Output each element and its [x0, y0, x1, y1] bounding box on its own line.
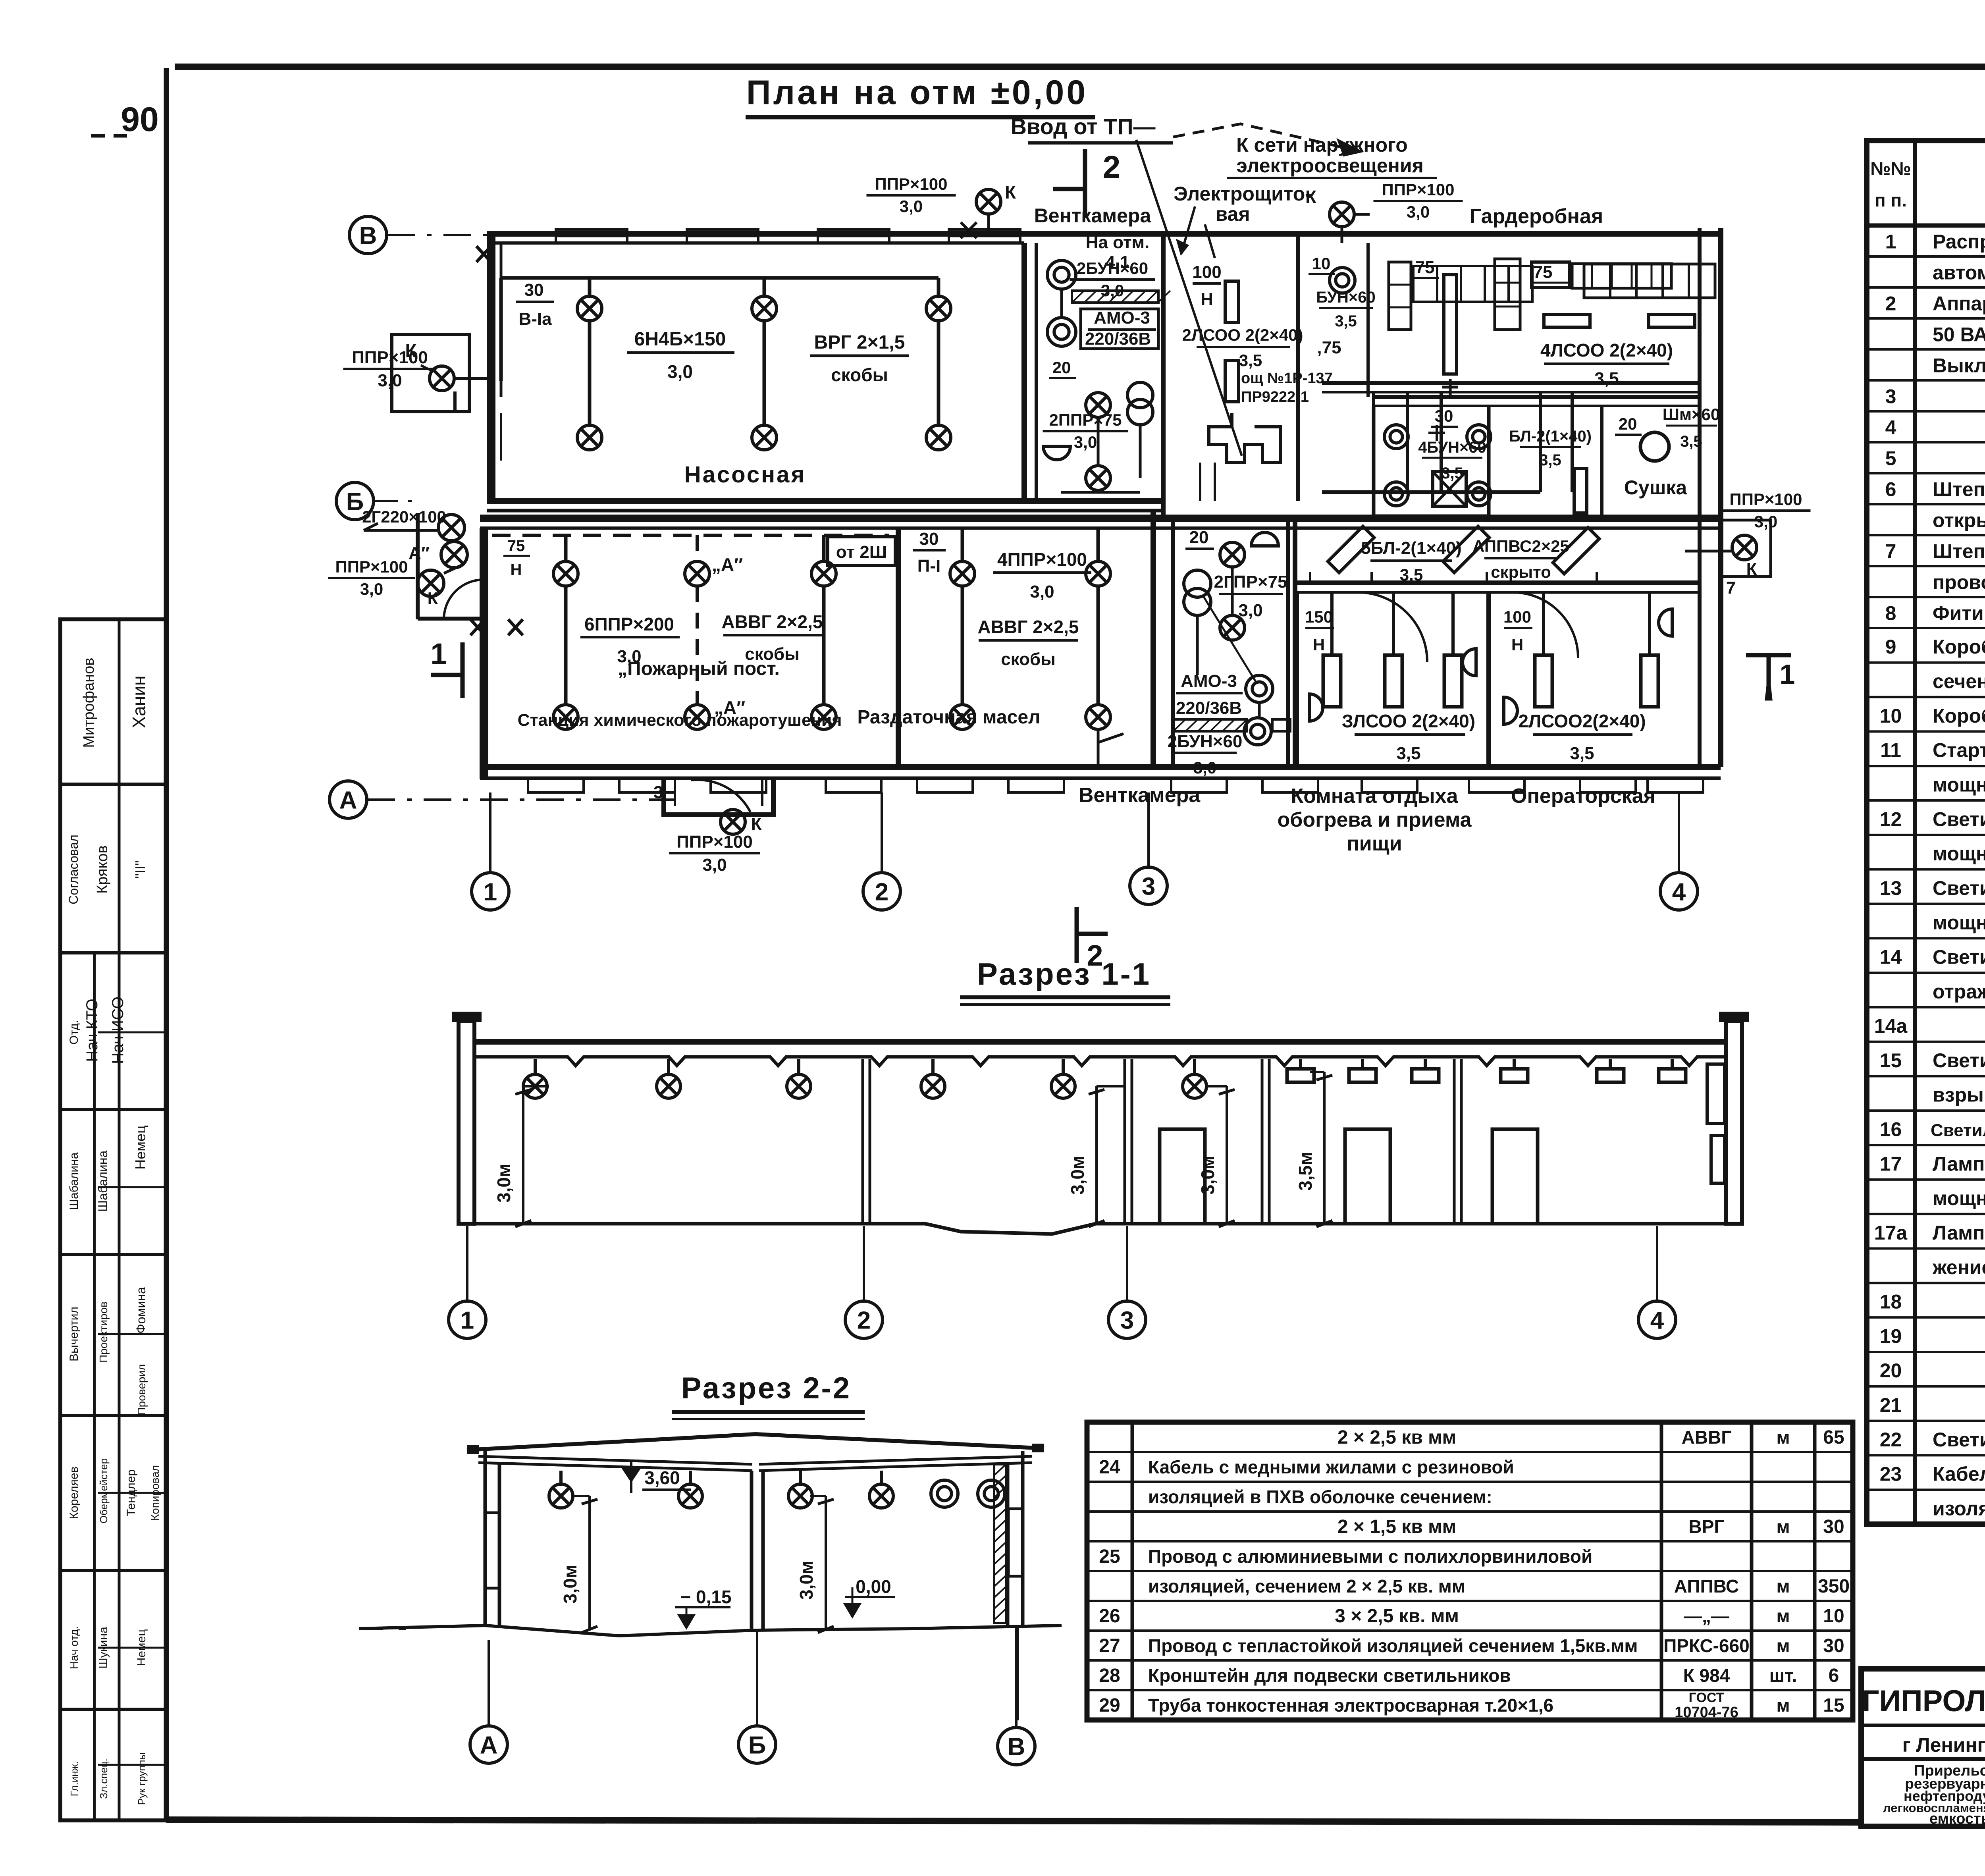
section2 ceiling slabs	[478, 1456, 1032, 1471]
dashed circuit line in stanciya	[492, 534, 889, 537]
svg-text:6: 6	[1829, 1665, 1839, 1686]
upper room wiring	[1061, 289, 1140, 492]
svg-text:"II": "II"	[132, 860, 148, 879]
svg-text:19: 19	[1880, 1325, 1902, 1347]
svg-text:п п.: п п.	[1875, 190, 1907, 210]
spec table row lines	[1867, 255, 1985, 258]
svg-text:15: 15	[1823, 1695, 1844, 1716]
left K lamp box nasosnaya	[392, 334, 469, 412]
svg-text:„А″: „А″	[712, 554, 743, 575]
svg-text:4БУН×60: 4БУН×60	[1418, 439, 1486, 456]
svg-text:Труба тонкостенная электросвар: Труба тонкостенная электросварная т.20×1…	[1148, 1695, 1553, 1716]
spec table column lines	[1913, 141, 1917, 1524]
garderob corridor wall horizontal	[1374, 395, 1700, 399]
wire from K lamp to wall	[455, 378, 491, 412]
plan axis line V	[387, 234, 619, 236]
lower block top wall	[480, 515, 1721, 522]
svg-text:Н: Н	[1313, 635, 1325, 654]
svg-text:2ЛСОО2(2×40): 2ЛСОО2(2×40)	[1518, 711, 1646, 731]
axis circle 2 plan	[863, 873, 900, 910]
svg-text:− 0,15: − 0,15	[680, 1587, 731, 1607]
svg-text:Провод с алюминиевыми с полихл: Провод с алюминиевыми с полихлорвинилово…	[1148, 1546, 1592, 1567]
section1 hanging lamps	[534, 1059, 537, 1074]
svg-text:13: 13	[1880, 877, 1902, 899]
foundation blocks under bottom wall	[528, 779, 584, 792]
svg-text:ГОСТ: ГОСТ	[1689, 1690, 1725, 1705]
cable table row lines	[1087, 1451, 1853, 1453]
svg-text:0,00: 0,00	[856, 1576, 891, 1597]
stamp column horizontal dividers	[60, 783, 166, 786]
svg-text:емкостью 2000 м³: емкостью 2000 м³	[1929, 1810, 1985, 1827]
annex lamp1	[438, 515, 464, 541]
svg-text:220/36В: 220/36В	[1085, 329, 1151, 349]
section cut mark 1 left	[461, 642, 465, 698]
section1 axis leaders	[466, 1226, 468, 1301]
svg-text:Копировал: Копировал	[149, 1465, 161, 1521]
svg-text:Фомина: Фомина	[134, 1287, 148, 1334]
section1 ceiling line with drips	[473, 1057, 1726, 1066]
svg-text:Шм×60: Шм×60	[1663, 405, 1720, 424]
section2 middle wall	[750, 1471, 754, 1629]
cable table outer border	[1087, 1422, 1853, 1720]
svg-text:Кореляев: Кореляев	[67, 1467, 81, 1519]
lower block bottom wall	[480, 764, 1721, 770]
svg-text:ПР9222-1: ПР9222-1	[1241, 389, 1309, 405]
svg-text:Нач ИСО: Нач ИСО	[109, 997, 127, 1064]
corridor diagonal fixture 2	[1443, 526, 1490, 573]
svg-text:30: 30	[919, 529, 939, 549]
svg-text:Б: Б	[748, 1731, 766, 1759]
svg-text:Венткамера: Венткамера	[1034, 204, 1152, 227]
svg-text:1: 1	[1780, 659, 1795, 690]
svg-text:1: 1	[461, 1307, 474, 1334]
svg-text:3: 3	[1885, 386, 1896, 408]
svg-text:Митрофанов: Митрофанов	[81, 657, 97, 748]
partition komnata-operatorskaya	[1486, 592, 1491, 767]
hatch strips ventkamera2	[1173, 719, 1247, 731]
svg-text:29: 29	[1099, 1695, 1120, 1716]
svg-text:3: 3	[1120, 1307, 1134, 1334]
svg-text:Аппарат местного освещения мощ: Аппарат местного освещения мощностью	[1933, 293, 1985, 315]
wall lamp AMO	[1246, 675, 1273, 702]
svg-text:м: м	[1776, 1427, 1790, 1448]
svg-text:В-Iа: В-Iа	[518, 309, 552, 329]
svg-text:7: 7	[1885, 540, 1896, 563]
svg-text:20: 20	[1189, 528, 1209, 547]
svg-text:А″: А″	[409, 544, 430, 563]
section2 hatched strip	[994, 1464, 1006, 1623]
svg-text:В: В	[359, 222, 377, 249]
svg-text:Согласовал: Согласовал	[66, 835, 81, 904]
right outer wall	[1698, 228, 1702, 767]
svg-text:Гл.инж.: Гл.инж.	[68, 1761, 80, 1797]
right outside lamp K	[1732, 535, 1757, 560]
svg-text:Светильник подвесной прямого с: Светильник подвесной прямого света без	[1933, 946, 1985, 968]
svg-text:№№: №№	[1870, 158, 1911, 179]
svg-text:1: 1	[430, 637, 447, 670]
svg-text:шт.: шт.	[1769, 1665, 1797, 1686]
svg-text:3,0: 3,0	[1030, 582, 1054, 602]
shar lamp	[1640, 432, 1669, 461]
svg-text:Зл.спец.: Зл.спец.	[98, 1758, 110, 1799]
section1 floor line	[473, 1224, 1726, 1234]
svg-text:проводки: проводки	[1933, 571, 1985, 594]
svg-text:Немец: Немец	[132, 1125, 148, 1169]
svg-text:3: 3	[653, 783, 663, 802]
svg-text:АВВГ: АВВГ	[1682, 1427, 1732, 1448]
shchit stepped cable run	[1209, 413, 1280, 463]
svg-text:м: м	[1776, 1516, 1790, 1537]
section2 dim line left	[588, 1496, 591, 1630]
section1 dim line 2	[1095, 1086, 1098, 1224]
section2 level 0.00	[845, 1596, 895, 1598]
svg-text:10704-76: 10704-76	[1675, 1704, 1738, 1721]
svg-text:2БУН×60: 2БУН×60	[1168, 732, 1243, 751]
section1 ceiling fixtures	[1299, 1059, 1302, 1069]
svg-text:65: 65	[1823, 1427, 1844, 1448]
svg-text:6Н4Б×150: 6Н4Б×150	[634, 329, 726, 350]
svg-text:18: 18	[1880, 1291, 1902, 1313]
svg-text:Ввод от ТП—: Ввод от ТП—	[1011, 114, 1156, 139]
svg-text:А: А	[480, 1731, 498, 1759]
svg-text:ПРКС-660: ПРКС-660	[1663, 1635, 1750, 1656]
svg-text:К: К	[1005, 182, 1016, 202]
svg-text:г Ленинград 1976 г.: г Ленинград 1976 г.	[1902, 1734, 1985, 1756]
svg-text:Н: Н	[1201, 289, 1213, 309]
razdat lamps col2	[1097, 528, 1100, 561]
left outer wall upper block	[487, 234, 495, 501]
annex lamp2	[441, 542, 467, 568]
window gap in left wall	[500, 413, 502, 461]
axis circle 3 section1	[1108, 1301, 1146, 1338]
svg-text:20: 20	[1619, 415, 1637, 433]
svg-text:Кабель с алюминиевыми жилами с: Кабель с алюминиевыми жилами с ПХВ	[1933, 1463, 1985, 1485]
svg-text:16: 16	[1880, 1118, 1902, 1141]
stamp sub-dividers	[98, 1032, 166, 1033]
svg-text:Вычертил: Вычертил	[67, 1307, 81, 1361]
svg-text:Проверил: Проверил	[135, 1364, 148, 1415]
svg-text:ЗЛСОО 2(2×40): ЗЛСОО 2(2×40)	[1342, 711, 1475, 731]
svg-text:Венткамера: Венткамера	[1079, 784, 1201, 807]
svg-text:изоляцией, сечением 2 × 2,5: изоляцией, сечением 2 × 2,5 кв. мм	[1148, 1576, 1465, 1596]
svg-text:3,5: 3,5	[1680, 433, 1702, 450]
annex lamp3	[418, 570, 444, 596]
sheet frame left border	[164, 68, 169, 1821]
svg-text:мощностью 40 Вт: мощностью 40 Вт	[1933, 843, 1985, 865]
svg-text:14а: 14а	[1874, 1015, 1908, 1037]
leader arrows from elektroshchitovaya	[1181, 206, 1215, 258]
svg-text:4ЛСОО 2(2×40): 4ЛСОО 2(2×40)	[1540, 340, 1673, 361]
svg-text:Обермейстер: Обермейстер	[98, 1458, 110, 1523]
svg-text:28: 28	[1099, 1665, 1120, 1686]
svg-text:3,0: 3,0	[667, 361, 693, 382]
svg-text:Рук группы: Рук группы	[136, 1753, 148, 1805]
leader axis 3	[1147, 792, 1150, 867]
svg-text:3,0: 3,0	[378, 371, 402, 390]
razdat wire to door	[1098, 730, 1124, 766]
svg-text:К: К	[1305, 187, 1317, 207]
plan axis line B	[374, 500, 417, 502]
svg-text:2ЛСОО 2(2×40): 2ЛСОО 2(2×40)	[1182, 326, 1303, 344]
svg-text:3,5: 3,5	[1594, 369, 1619, 388]
svg-text:ППР×100: ППР×100	[335, 557, 408, 576]
svg-text:3: 3	[1142, 873, 1155, 900]
annex walls left	[416, 513, 420, 619]
diagonal leader in ventkamera2	[1203, 596, 1257, 683]
top wall windows	[556, 229, 627, 243]
svg-text:3,0: 3,0	[360, 580, 383, 598]
svg-text:автоматов без вводного автомат: автоматов без вводного автомата	[1933, 262, 1985, 284]
svg-text:Нач отд.: Нач отд.	[68, 1626, 80, 1670]
svg-text:6ППР×200: 6ППР×200	[584, 614, 674, 634]
BUN lamp corridor	[1330, 268, 1355, 293]
svg-text:75: 75	[1533, 262, 1553, 282]
svg-text:Штепсельная розетка на 6А,250В: Штепсельная розетка на 6А,250В для скрыт…	[1933, 540, 1985, 563]
axis circle 3 plan	[1130, 867, 1167, 904]
svg-text:Светильник повышенной надежнос: Светильник повышенной надежности против	[1933, 1049, 1985, 1072]
section1 dim line 1	[522, 1086, 524, 1224]
corridor wire	[1310, 572, 1597, 583]
lockers vertical right	[1495, 259, 1520, 330]
svg-text:3,5: 3,5	[1539, 451, 1561, 469]
komnata domes	[1309, 694, 1323, 721]
svg-text:3 × 2,5 кв. мм: 3 × 2,5 кв. мм	[1335, 1606, 1459, 1627]
ventkamera2 wiring	[1197, 568, 1259, 718]
section1 left column	[459, 1021, 474, 1224]
svg-text:3,0: 3,0	[1074, 433, 1097, 451]
svg-text:электроосвещения: электроосвещения	[1236, 154, 1424, 177]
lockers vertical left	[1389, 262, 1411, 330]
svg-text:20: 20	[1052, 358, 1071, 377]
nasosnaya bottom wall	[487, 498, 1163, 504]
svg-text:Раздаточная масел: Раздаточная масел	[857, 707, 1040, 728]
svg-text:м: м	[1776, 1695, 1790, 1716]
svg-text:12: 12	[1880, 808, 1902, 830]
svg-text:2ГПР×75: 2ГПР×75	[1214, 572, 1287, 592]
svg-text:26: 26	[1099, 1606, 1120, 1627]
svg-text:100: 100	[1192, 262, 1221, 282]
svg-text:21: 21	[1880, 1394, 1902, 1416]
svg-text:пищи: пищи	[1347, 832, 1402, 855]
svg-text:150: 150	[1305, 607, 1333, 626]
section2 dim line right	[825, 1496, 827, 1630]
svg-text:ППР×100: ППР×100	[875, 175, 948, 193]
svg-text:Светильник на две люминесцентн: Светильник на две люминесцентные лампы	[1933, 877, 1985, 899]
svg-text:Коробка ответвительная для каб: Коробка ответвительная для кабеля АВВГ	[1933, 636, 1985, 658]
svg-text:АМО-3: АМО-3	[1181, 671, 1237, 691]
svg-text:Нач КТО: Нач КТО	[83, 999, 101, 1062]
komnata fixtures	[1330, 592, 1334, 655]
svg-text:скрыто: скрыто	[1491, 563, 1551, 581]
svg-text:П-I: П-I	[917, 556, 941, 576]
stanciya lamps col2 dashed	[696, 535, 699, 561]
garderobnaya lockers top	[1413, 266, 1437, 302]
svg-text:22: 22	[1880, 1429, 1902, 1451]
ventkamera2 dome	[1251, 532, 1278, 546]
operator door arc	[1513, 592, 1578, 658]
svg-text:Немец: Немец	[135, 1629, 148, 1666]
svg-text:2: 2	[875, 878, 888, 906]
svg-text:взрыва с лампой мощностью 150: взрыва с лампой мощностью 150 Вт	[1933, 1084, 1985, 1106]
nasosnaya lamps and wiring	[588, 278, 592, 295]
svg-text:Гардеробная: Гардеробная	[1470, 205, 1603, 228]
svg-text:от 2Ш: от 2Ш	[836, 542, 887, 562]
svg-text:Фитинг проходной: Фитинг проходной	[1933, 602, 1985, 625]
sheet frame top border	[175, 64, 1985, 70]
sushka room wall	[1571, 392, 1574, 492]
svg-text:мощностью 40 Вт: мощностью 40 Вт	[1933, 1187, 1985, 1209]
svg-text:Кронштейн для подвески светиль: Кронштейн для подвески светильников	[1148, 1665, 1511, 1686]
nasosnaya right wall	[1021, 243, 1027, 501]
axis circle A section2	[470, 1726, 507, 1763]
svg-text:ППР×100: ППР×100	[352, 348, 428, 367]
leader axis 4	[1678, 792, 1680, 873]
svg-text:К: К	[751, 814, 762, 834]
svg-text:50 ВА, напряжением 220/36В: 50 ВА, напряжением 220/36В	[1933, 324, 1985, 346]
svg-text:75: 75	[507, 537, 525, 555]
leader axis 2	[881, 792, 883, 873]
svg-text:3,0м: 3,0м	[560, 1565, 580, 1604]
stamp column inner vertical divider	[118, 619, 121, 1820]
partition stanciya-razdatochnaya	[896, 528, 901, 767]
svg-text:изоляцией в ПХВ оболочке сечен: изоляцией в ПХВ оболочке сечением:	[1148, 1487, 1492, 1507]
axis circle 1 section1	[449, 1301, 486, 1338]
section2 wall lamps	[931, 1480, 958, 1507]
section1 partitions	[861, 1059, 864, 1224]
svg-text:Проектиров: Проектиров	[97, 1301, 110, 1363]
svg-text:2: 2	[1885, 293, 1896, 315]
axis circle V below cable table	[1016, 1625, 1019, 1720]
svg-text:В: В	[1008, 1733, 1025, 1760]
partition ventkamera-komnata	[1293, 518, 1297, 767]
wire from top K lamp	[1342, 214, 1370, 243]
svg-text:15: 15	[1880, 1049, 1902, 1072]
svg-text:Светильник настенный с лампой: Светильник настенный с лампой 60 Вт	[1933, 1429, 1985, 1451]
svg-text:4ППР×100: 4ППР×100	[997, 549, 1087, 570]
svg-text:К сети наружного: К сети наружного	[1236, 134, 1408, 156]
svg-text:350: 350	[1818, 1576, 1850, 1597]
svg-text:Провод с тепластойкой изоляцие: Провод с тепластойкой изоляцией сечением…	[1148, 1635, 1638, 1656]
section2 ground line	[359, 1625, 1062, 1636]
svg-text:2 × 1,5 кв мм: 2 × 1,5 кв мм	[1337, 1516, 1456, 1537]
svg-text:3,0: 3,0	[1193, 758, 1216, 777]
svg-text:2ППР×75: 2ППР×75	[1049, 411, 1122, 429]
svg-text:Отд.: Отд.	[67, 1020, 81, 1045]
axis circle B	[336, 482, 374, 520]
svg-text:11: 11	[1880, 739, 1901, 762]
svg-text:2Г220×100: 2Г220×100	[362, 507, 446, 526]
svg-text:Б: Б	[346, 488, 364, 515]
svg-text:Операторская: Операторская	[1511, 785, 1655, 808]
cable table column lines	[1131, 1422, 1134, 1720]
section1 doors	[1160, 1129, 1205, 1224]
section1 right column	[1726, 1021, 1742, 1224]
svg-text:м: м	[1776, 1576, 1790, 1596]
svg-text:17: 17	[1880, 1153, 1902, 1175]
svg-text:1: 1	[1885, 231, 1896, 253]
section2 left wall	[484, 1451, 487, 1627]
axis circle V	[349, 216, 387, 254]
garderobnaya corridor wall	[1322, 381, 1700, 385]
svg-text:10: 10	[1312, 254, 1331, 273]
section1 dim line 4	[1323, 1072, 1326, 1224]
operator fixtures	[1542, 592, 1545, 655]
svg-text:7: 7	[1726, 578, 1736, 598]
svg-text:Электрощито-: Электрощито-	[1174, 183, 1312, 205]
svg-text:БУН×60: БУН×60	[1316, 289, 1375, 306]
svg-text:План на отм ±0,00: План на отм ±0,00	[746, 73, 1088, 112]
svg-text:открытой установки исполнение: открытой установки исполнение защищенное	[1933, 509, 1985, 532]
operator domes	[1504, 697, 1517, 724]
svg-text:Н: Н	[511, 561, 522, 578]
bay lamp K	[721, 810, 745, 834]
svg-text:5: 5	[1885, 447, 1896, 470]
svg-text:АППВС: АППВС	[1674, 1576, 1739, 1596]
svg-text:Шукина: Шукина	[97, 1627, 110, 1669]
elektroshchitovaya wall	[1296, 234, 1300, 501]
svg-text:3,5: 3,5	[1396, 744, 1420, 763]
svg-text:Станция химического пожаротуше: Станция химического пожаротушения	[518, 711, 842, 730]
4BUNx60 label	[1428, 425, 1445, 441]
svg-text:3,0м: 3,0м	[493, 1164, 514, 1203]
svg-text:„Пожарный пост.: „Пожарный пост.	[618, 658, 780, 679]
svg-text:3,60: 3,60	[644, 1467, 680, 1488]
spec table outer border	[1867, 141, 1985, 1524]
garderob fluor fixtures	[1544, 314, 1590, 327]
central tall fixture	[1444, 275, 1457, 374]
svg-text:К 984: К 984	[1683, 1665, 1730, 1686]
svg-text:отражателя с лампой мощностью: отражателя с лампой мощностью 100 Вт	[1933, 980, 1985, 1003]
svg-text:Лампа накаливания общего назна: Лампа накаливания общего назначения напр…	[1933, 1222, 1985, 1244]
svg-text:—„—: —„—	[1684, 1606, 1729, 1626]
svg-text:3,0: 3,0	[900, 197, 923, 216]
ventkamera top-room walls	[1035, 243, 1038, 501]
section2 lamps	[559, 1471, 563, 1484]
corridor bottom wall (komnata top)	[1297, 580, 1699, 585]
svg-text:Насосная: Насосная	[684, 462, 806, 488]
svg-text:2БУН×60: 2БУН×60	[1077, 259, 1148, 278]
svg-text:3,0: 3,0	[1407, 202, 1430, 221]
svg-text:1: 1	[484, 878, 497, 906]
ventkamera2 transformer	[1184, 570, 1211, 597]
svg-text:ощ №1Р-137: ощ №1Р-137	[1241, 370, 1333, 387]
partition razdatochnaya-ventkamera	[1151, 511, 1156, 767]
axis circle 4 section1	[1638, 1301, 1676, 1338]
axis circle B section2	[738, 1726, 776, 1763]
section2 elevation 3.60	[623, 1469, 639, 1481]
top ventkamera K lamp	[976, 189, 1001, 214]
arrow marks lower-left wall	[470, 619, 485, 635]
svg-text:3,5: 3,5	[1570, 744, 1594, 763]
svg-text:Светильник „Шар” молочного сте: Светильник „Шар” молочного стекла с ламп…	[1931, 1121, 1985, 1140]
svg-text:4: 4	[1885, 416, 1896, 439]
svg-text:23: 23	[1880, 1463, 1902, 1485]
corridor diagonal fixture 3	[1553, 528, 1600, 574]
wc wall lamps	[1384, 425, 1408, 449]
title block outer border	[1861, 1669, 1985, 1826]
svg-text:Комната отдыха: Комната отдыха	[1291, 785, 1459, 808]
svg-text:изоляцией в ПХВ оболочке сечен: изоляцией в ПХВ оболочке сечением:	[1933, 1497, 1985, 1519]
garderobnaya wc partitions	[1372, 392, 1375, 492]
svg-text:30: 30	[524, 280, 544, 300]
svg-text:ВРГ 2×1,5: ВРГ 2×1,5	[814, 332, 905, 353]
arrow marks on left wall	[476, 246, 491, 262]
panel rectangles	[1225, 281, 1239, 322]
ventkamera upper wall lamps	[1047, 260, 1076, 289]
svg-text:скобы: скобы	[1001, 650, 1056, 669]
svg-text:жением 220В мощностью 200 Вт: жением 220В мощностью 200 Вт	[1932, 1256, 1985, 1278]
svg-text:9: 9	[1885, 636, 1896, 658]
